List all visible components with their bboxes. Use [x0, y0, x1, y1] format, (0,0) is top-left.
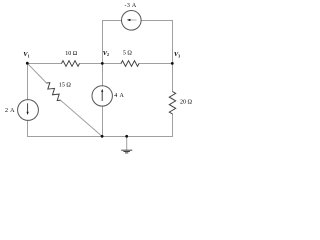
svg-text:15 Ω: 15 Ω	[59, 83, 72, 89]
svg-text:-3 A: -3 A	[125, 3, 137, 9]
svg-text:20 Ω: 20 Ω	[180, 100, 193, 106]
svg-text:10 Ω: 10 Ω	[65, 51, 78, 57]
svg-text:2 A: 2 A	[5, 108, 15, 114]
svg-text:V2: V2	[103, 50, 109, 57]
svg-text:V3: V3	[174, 51, 180, 58]
svg-text:5 Ω: 5 Ω	[123, 51, 133, 57]
svg-text:V1: V1	[23, 51, 29, 58]
svg-text:4 A: 4 A	[114, 93, 124, 99]
